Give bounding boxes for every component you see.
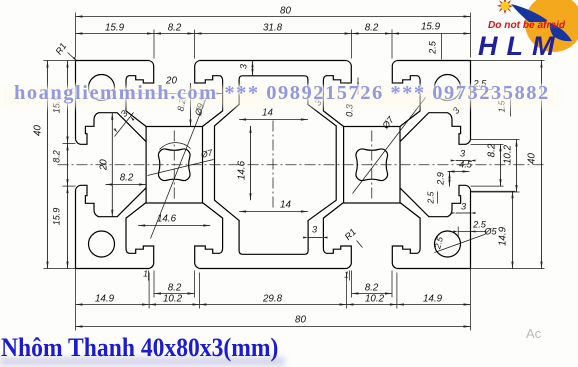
svg-text:HLM: HLM — [478, 31, 563, 61]
svg-text:Do not be afraid: Do not be afraid — [488, 19, 566, 31]
